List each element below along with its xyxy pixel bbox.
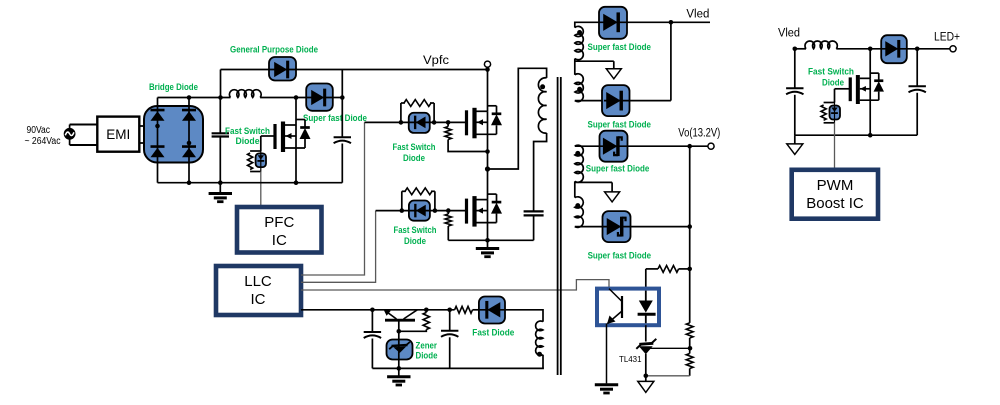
primary ground [219,183,221,193]
wire LLC gate drive B [301,211,376,283]
LLC ground [487,240,489,247]
opto series resistor [646,268,658,270]
wire divider bottom to TL431 anode [646,375,690,377]
wire D8 output [631,226,690,228]
lower gate fast switch diode [409,201,430,221]
wire AC to EMI top [69,125,71,129]
node midpoint [485,166,490,171]
wire Vo feedback drop [689,146,691,323]
svg-text:Diode: Diode [403,153,425,163]
node lower source [485,238,490,243]
right ground arrow [794,135,796,144]
wire fast diode to aux winding [505,310,543,322]
PFC gate fast switch diode [256,153,266,167]
wire LLC Vcc rail [301,309,455,311]
wire L2 to diode [836,48,881,50]
svg-text:Fast Switch: Fast Switch [393,142,436,152]
feedback divider resistor upper [686,323,693,338]
primary phase dot [540,84,545,89]
base resistor [425,310,427,313]
wire Q4 base [398,322,400,340]
svg-text:Super fast Diode: Super fast Diode [588,251,652,261]
W5 phase dot [537,352,542,357]
center tap 1 [574,59,576,75]
wire TL431 ref [651,347,691,349]
node resistor top [424,308,429,313]
secondary winding W4 [575,197,583,228]
node cap1 top [370,308,375,313]
wire D6 output [630,100,671,102]
lower LLC MOSFET Q3 [465,199,468,224]
opto phototransistor [621,296,623,318]
feedback divider resistor lower [689,348,691,353]
node boost output [340,95,345,100]
node opto resistor tap [687,267,692,272]
node TL431 anode [644,374,649,379]
node output cap tap [915,47,920,52]
wire Vled drop [670,22,672,100]
svg-text:Vo(13.2V): Vo(13.2V) [678,127,720,139]
node zener bottom [397,366,402,371]
secondary winding W3 [575,145,599,147]
wire negative rail right [795,134,917,136]
secondary ground [595,383,618,386]
TL431 ground arrow [645,376,647,382]
wire Q5 gate [835,88,851,90]
secondary winding W1 [575,22,599,27]
wire lower gate line [376,210,467,212]
wire Vled rail [627,21,711,23]
superfast diode D9 [881,35,907,63]
svg-text:Diode: Diode [404,236,426,246]
svg-text:Diode: Diode [822,78,844,88]
node rail-2 [218,180,223,185]
aux series resistor [455,306,473,313]
node lower gate tap [446,208,451,213]
bridge rectifier block BR1 [144,106,203,163]
EMI filter block [97,117,139,152]
wire EMI to bridge AC2 [139,142,189,144]
node D8 out [687,224,692,229]
node bridge AC1 [155,124,160,129]
fast diode aux [479,297,505,324]
W4 phase dot [575,203,580,208]
secondary winding W2 [575,74,584,102]
node Vpfc [485,67,490,72]
wire Vled rail right [795,48,806,50]
svg-text:Diode: Diode [236,136,260,146]
svg-text:Boost IC: Boost IC [806,195,864,212]
wire lower source [487,223,489,241]
W1 phase dot [577,30,582,35]
node upper gate left [399,120,404,125]
svg-text:Super fast Diode: Super fast Diode [586,164,650,174]
general purpose diode [269,57,296,81]
boost inductor L1 [229,90,261,98]
opto LED [645,291,647,301]
wire LLC negative rail [448,239,533,241]
node Vled [669,20,674,25]
svg-text:LLC: LLC [244,273,272,290]
node upper gate tap [446,120,451,125]
node base [397,329,402,334]
node upper gate right [432,120,437,125]
svg-text:Fast Diode: Fast Diode [472,328,514,338]
node bridge top [187,95,192,100]
upper gate parallel resistor [400,103,402,122]
aux capacitor C4 [449,310,451,330]
svg-text:TL431: TL431 [619,354,642,364]
svg-text:LED+: LED+ [934,32,960,44]
svg-text:Vled: Vled [778,28,800,40]
svg-text:Vled: Vled [686,9,709,21]
svg-text:Fast Switch: Fast Switch [394,225,437,235]
terminal Vo [708,143,714,149]
wire primary negative rail [158,182,343,184]
wire primary bottom [534,133,547,211]
wire diode to LED+ [907,48,950,50]
wire LLC feedback [301,280,609,290]
bridge diode D3 [151,145,165,148]
svg-text:~ 264Vac: ~ 264Vac [25,136,61,147]
transformer core [557,77,559,375]
input filter capacitor C1 [219,98,221,133]
W3 phase dot [575,151,580,156]
bridge diode D4 [182,145,196,148]
lower gate-source resistor [447,211,449,214]
node PFC source [294,180,299,185]
node lower gate right [433,208,438,213]
LLC IC U2 [216,266,301,315]
wire PFC source [295,148,297,183]
wire PFC gate [261,135,275,137]
svg-text:Diode: Diode [416,351,438,361]
node Vo [687,144,692,149]
svg-text:IC: IC [251,291,266,308]
aux winding W5 [536,321,543,355]
wire upper drain [487,70,489,112]
node boost drain tap [868,47,873,52]
aux capacitor C3 [371,310,373,332]
wire opto cathode to TL431 [645,325,647,341]
node Vled right [793,47,798,52]
superfast diode D5 [599,7,627,39]
boost MOSFET Q5 [849,77,852,101]
superfast diode D8 [603,211,631,242]
node cap2 top [447,308,452,313]
wire gate to PWM IC [834,123,836,170]
upper gate fast switch diode [409,113,430,133]
wire PFC gate to PFC IC [260,172,262,207]
wire boost diode output [333,97,343,99]
wire W2 to diode [575,100,604,102]
svg-text:Fast Switch: Fast Switch [225,126,270,136]
bridge diode D2 [182,109,196,112]
node bridge AC2 [187,141,192,146]
svg-text:Bridge Diode: Bridge Diode [149,82,198,92]
superfast boost diode [306,84,333,111]
node divider mid [688,346,693,351]
wire riser to top rail [220,70,222,98]
wire AC to EMI bottom [69,139,71,145]
wire upper gate line [365,121,467,123]
wire W4 to diode [575,226,603,228]
PFC gate resistor [250,150,261,152]
node Q5 source [868,133,873,138]
upper LLC MOSFET Q2 [465,110,468,135]
PFC MOSFET Q1 [273,124,276,149]
superfast diode D6 [602,85,630,116]
center tap 2 [574,181,576,197]
wire inductor to boost diode [260,97,306,99]
terminal LED+ [950,46,956,52]
wire primary loop [488,68,547,169]
wire opto LED anode [645,269,647,289]
resonant capacitor Cr [524,210,544,212]
wire top rail to Vpfc [221,69,488,71]
svg-text:EMI: EMI [106,127,130,142]
bridge left column wire [157,98,159,183]
bridge diode D1 [151,109,165,112]
svg-text:Vpfc: Vpfc [423,55,449,67]
wire Q5 source [869,100,871,135]
svg-text:General Purpose Diode: General Purpose Diode [230,45,318,55]
node upper source [485,149,490,154]
boost inductor L2 [805,41,837,49]
bridge right column wire [188,98,190,183]
PWM gate fast switch diode [830,106,841,120]
upper gate-source resistor [447,122,449,126]
wire LLC gate drive A [301,122,365,275]
PWM gate resistor [824,102,835,104]
lower gate parallel resistor [401,191,403,210]
node PFC drain [294,95,299,100]
TL431 shunt regulator [639,343,653,344]
wire aux negative rail [372,367,544,369]
output capacitor C6 [916,49,918,86]
svg-text:Zener: Zener [416,341,438,351]
svg-text:Super fast Diode: Super fast Diode [303,113,367,123]
PFC bulk capacitor C2 [334,136,351,138]
svg-text:IC: IC [272,232,287,249]
PFC IC U1 [237,207,322,253]
wire half-bridge midpoint [487,134,489,199]
wire boost output riser [341,70,343,137]
superfast diode D7 [600,131,628,162]
node rail-1 [187,180,192,185]
W2 phase dot [577,87,582,92]
aux ground [398,368,400,375]
secondary ground arrow 2 [605,192,620,202]
svg-text:PFC: PFC [264,214,294,231]
optocoupler U3 [597,289,659,326]
wire opto emitter [606,324,608,384]
PWM Boost IC U4 [792,170,878,219]
zener diode [387,340,413,360]
terminal Vpfc [484,61,490,67]
wire EMI to bridge AC1 [139,125,157,127]
svg-text:Super fast Diode: Super fast Diode [588,42,652,52]
wire Vo rail [627,145,708,147]
node lower gate left [400,208,405,213]
wire bridge plus rail [158,97,231,99]
AC source V1 [65,129,75,139]
node Vpfc riser tap [218,95,223,100]
wire PFC drain [295,98,297,126]
wire aux winding bottom [542,355,544,369]
input capacitor C5 [794,49,796,88]
svg-text:Fast Switch: Fast Switch [808,67,854,77]
transformer primary winding [538,78,546,133]
pass transistor Q4 [385,319,415,322]
secondary ground arrow 1 [606,69,621,79]
svg-text:Super fast Diode: Super fast Diode [588,120,652,130]
svg-text:PWM: PWM [817,177,854,194]
wire Q5 drain [869,49,871,79]
svg-text:90Vac: 90Vac [27,125,51,136]
